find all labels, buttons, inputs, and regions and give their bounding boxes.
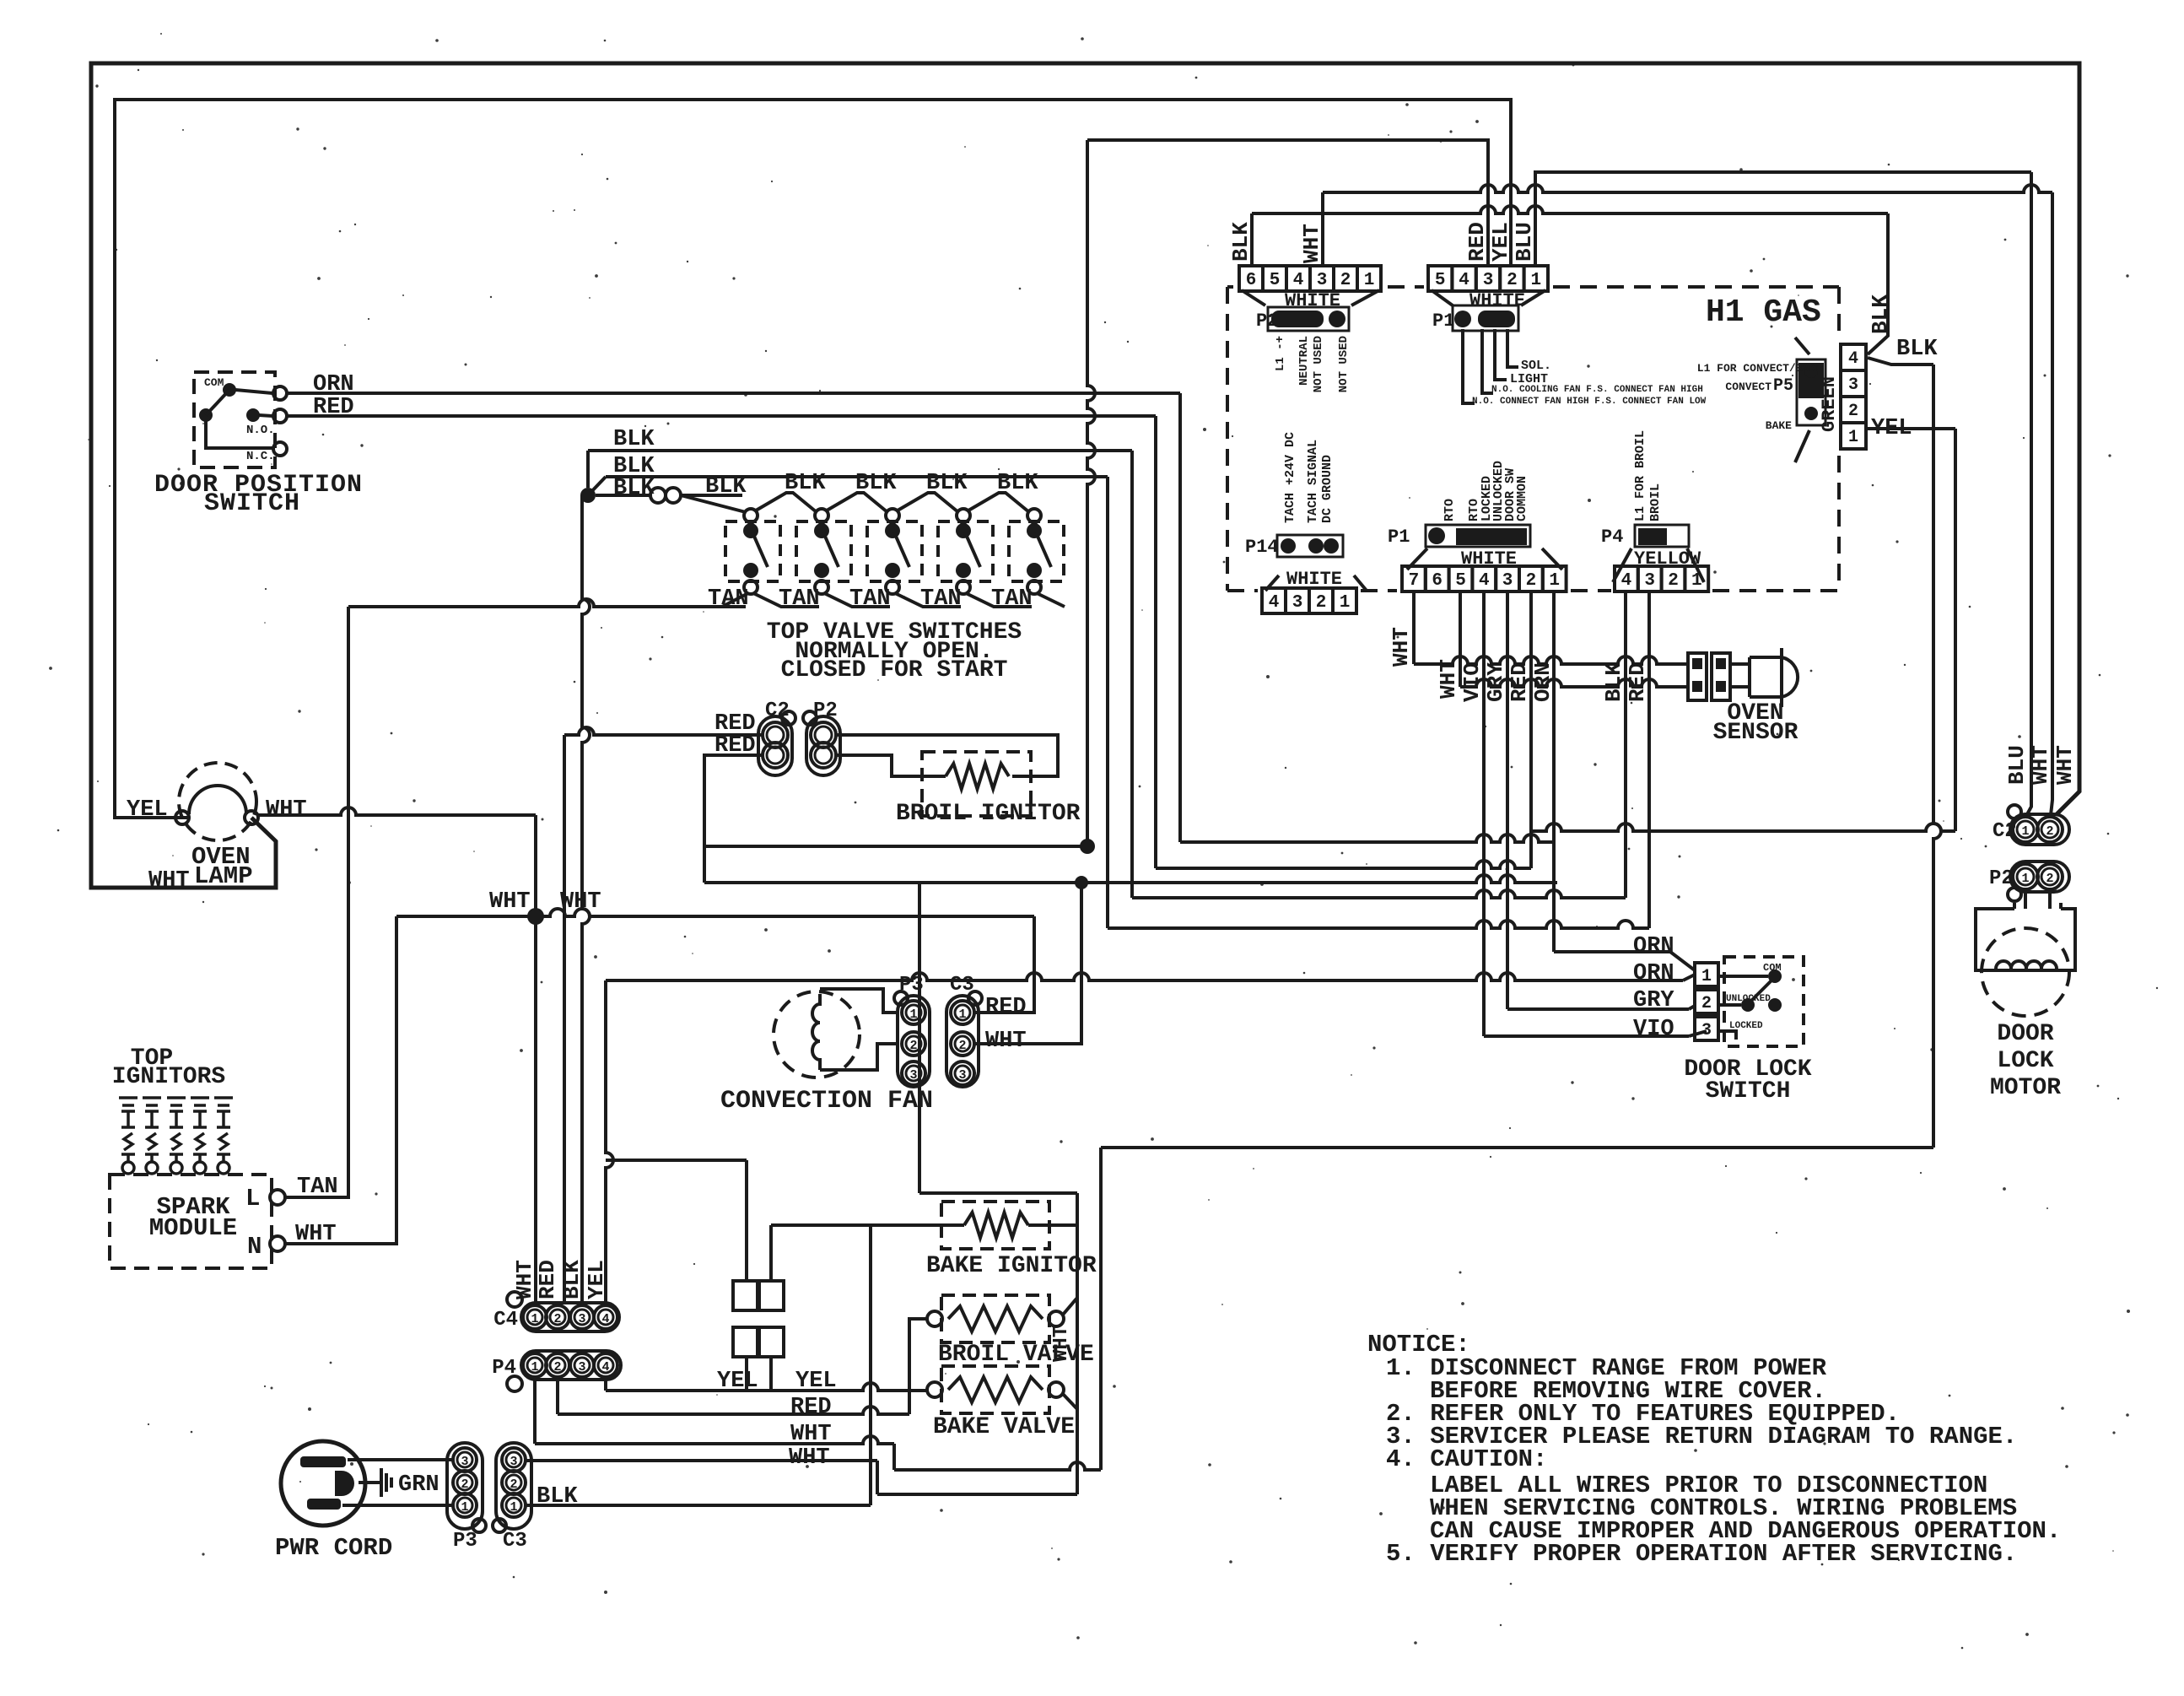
svg-text:4: 4 — [1848, 349, 1858, 369]
terminal block stubs — [745, 1160, 748, 1281]
svg-text:3: 3 — [958, 1068, 966, 1083]
svg-text:1: 1 — [531, 1312, 538, 1326]
door lock motor winding — [1996, 961, 2057, 969]
P4 funnel dashes — [1613, 548, 1631, 582]
svg-text:MOTOR: MOTOR — [1990, 1075, 2061, 1101]
svg-text:N.C.: N.C. — [246, 450, 275, 463]
wire YEL inner border run — [115, 100, 1511, 818]
node BLK junction top valve switches — [580, 488, 596, 503]
wire RED fan feed — [974, 916, 1034, 1013]
svg-text:1: 1 — [909, 1007, 917, 1022]
top ignitors symbols — [119, 1098, 138, 1174]
svg-text:SENSOR: SENSOR — [1713, 720, 1798, 746]
wire P2 bottom to resistor — [836, 755, 946, 776]
svg-text:BLK: BLK — [1601, 662, 1626, 702]
door position switch box — [194, 372, 275, 467]
svg-text:YEL: YEL — [1488, 222, 1513, 262]
svg-text:1: 1 — [461, 1500, 468, 1515]
svg-text:4: 4 — [601, 1312, 609, 1326]
svg-text:2: 2 — [510, 1477, 517, 1492]
svg-text:2: 2 — [1316, 593, 1327, 613]
svg-text:IGNITORS: IGNITORS — [112, 1064, 225, 1090]
svg-text:RED: RED — [535, 1260, 560, 1299]
svg-text:1: 1 — [1549, 571, 1560, 591]
P15 funnel dashes — [1432, 290, 1453, 305]
oven sensor bulb — [1750, 657, 1782, 697]
connector strip P5 vertical — [1841, 344, 1866, 370]
wire RED bus to P1 pin2 — [1156, 861, 1531, 868]
svg-text:1: 1 — [2021, 872, 2029, 886]
svg-text:CLOSED FOR START: CLOSED FOR START — [781, 657, 1008, 683]
door lock motor body — [2025, 892, 2050, 909]
svg-text:1: 1 — [1691, 571, 1702, 591]
svg-text:3: 3 — [578, 1312, 585, 1326]
wire plug to P3 pin3 — [348, 1458, 452, 1461]
svg-text:2: 2 — [2046, 872, 2053, 886]
svg-text:TACH +24V DC: TACH +24V DC — [1283, 432, 1297, 523]
top valve switch 5 — [1009, 521, 1064, 581]
svg-text:VIO: VIO — [1633, 1017, 1674, 1042]
svg-text:WHT: WHT — [1389, 627, 1414, 667]
svg-text:ORN: ORN — [1633, 961, 1674, 986]
connector strip P4 4-pin — [1615, 566, 1638, 591]
svg-text:WHITE: WHITE — [1469, 290, 1525, 311]
wire WHT 6-pin to C2 — [1321, 192, 1324, 266]
svg-text:BAKE VALVE: BAKE VALVE — [933, 1414, 1075, 1440]
svg-text:WHT: WHT — [2052, 745, 2078, 785]
svg-text:RED: RED — [1464, 222, 1490, 262]
wire BLK bus1 to P4 board — [1132, 890, 1626, 898]
svg-text:DC GROUND: DC GROUND — [1320, 455, 1335, 523]
wire WHT2 from C3 pin3 — [526, 1459, 877, 1462]
svg-text:TACH SIGNAL: TACH SIGNAL — [1306, 440, 1320, 523]
svg-text:2: 2 — [1701, 994, 1712, 1013]
svg-text:L1 FOR CONVECT/BAKE: L1 FOR CONVECT/BAKE — [1697, 362, 1822, 375]
svg-text:2: 2 — [1526, 571, 1537, 591]
svg-text:BROIL IGNITOR: BROIL IGNITOR — [896, 801, 1081, 827]
wire bake ignitor right return — [1028, 1223, 1077, 1227]
wire ORN bus to door lock switch — [1180, 834, 1554, 842]
svg-text:4: 4 — [1459, 271, 1469, 290]
wire RED C4 feed — [564, 727, 763, 735]
broil ignitor resistor — [922, 752, 1031, 816]
svg-text:WHT: WHT — [2028, 745, 2053, 785]
svg-text:C4: C4 — [493, 1309, 518, 1331]
svg-text:N: N — [247, 1233, 262, 1261]
svg-text:BAKE: BAKE — [1766, 419, 1792, 432]
svg-text:BLK: BLK — [613, 427, 655, 452]
wire plug to P3 pin1 — [342, 1504, 452, 1507]
svg-text:TAN: TAN — [779, 586, 820, 612]
wire loop top — [703, 845, 1087, 848]
svg-text:TAN: TAN — [991, 586, 1033, 612]
wire YEL to C4 pin4 — [606, 980, 613, 1303]
svg-text:2: 2 — [909, 1039, 917, 1053]
node junction loop top — [1080, 839, 1095, 854]
wire RED pin2 — [1529, 591, 1533, 868]
svg-text:COMMON: COMMON — [1515, 476, 1529, 521]
svg-text:GREEN: GREEN — [1819, 376, 1840, 432]
P5 funnel dashes — [1795, 338, 1809, 354]
wire WHT to C4 pin1 — [534, 916, 537, 1303]
wire rail 1771 — [877, 1493, 1077, 1496]
svg-text:TAN: TAN — [920, 586, 962, 612]
svg-text:WHT: WHT — [489, 889, 531, 915]
svg-text:1: 1 — [1848, 428, 1858, 447]
svg-text:L: L — [245, 1185, 260, 1213]
svg-text:6: 6 — [1246, 271, 1257, 290]
H1 GAS board dashed outline — [1227, 287, 1839, 591]
svg-text:PWR CORD: PWR CORD — [275, 1534, 392, 1562]
svg-text:RED: RED — [1625, 662, 1650, 702]
svg-text:WHT: WHT — [1299, 224, 1324, 263]
svg-text:NOT USED: NOT USED — [1337, 336, 1351, 392]
wire RED P4 pin2 down — [556, 1380, 559, 1414]
svg-text:VIO: VIO — [1459, 662, 1485, 702]
door position switch terminals — [273, 386, 287, 400]
svg-text:N.O. CONNECT FAN HIGH F.S. CON: N.O. CONNECT FAN HIGH F.S. CONNECT FAN L… — [1472, 397, 1707, 407]
svg-text:YEL: YEL — [127, 797, 168, 823]
wire loop bottom long — [704, 875, 1557, 883]
svg-text:GRY: GRY — [1633, 988, 1674, 1013]
svg-text:3: 3 — [1317, 271, 1328, 290]
wire WHT pin7 to sensor — [1412, 591, 1416, 664]
svg-text:2: 2 — [958, 1039, 966, 1053]
svg-text:6: 6 — [1432, 571, 1443, 591]
svg-text:DOOR: DOOR — [1997, 1021, 2053, 1047]
svg-text:MODULE: MODULE — [149, 1214, 237, 1242]
wire WHT spark module — [285, 916, 396, 1244]
wire link to terminal blocks — [606, 1159, 747, 1162]
oven lamp filament arc — [189, 786, 246, 814]
svg-text:2: 2 — [1848, 402, 1858, 421]
svg-text:BAKE IGNITOR: BAKE IGNITOR — [926, 1253, 1097, 1279]
svg-text:3: 3 — [578, 1360, 585, 1375]
P14 funnel dashes — [1265, 575, 1279, 591]
svg-text:LOCK: LOCK — [1997, 1048, 2053, 1074]
wire ORN second to switch — [606, 973, 1683, 980]
P15 internal wires — [1463, 329, 1475, 403]
power cord plug — [281, 1441, 365, 1526]
P1 funnel dashes — [1407, 548, 1427, 570]
svg-text:BLU: BLU — [1512, 222, 1537, 262]
svg-text:BLK: BLK — [1896, 337, 1938, 362]
svg-text:WHT: WHT — [148, 868, 190, 894]
wire YEL cross to door lock motor — [1531, 824, 1955, 831]
svg-text:2: 2 — [553, 1312, 561, 1326]
wire BLK P4 pin4 down — [1624, 591, 1627, 898]
wire broil valve right diagonal — [1063, 1298, 1077, 1315]
convection fan dashed circle — [774, 991, 860, 1078]
wire rail 1742 — [894, 1462, 1101, 1470]
svg-text:ORN: ORN — [1530, 662, 1556, 702]
diagonal BLK links between switches — [756, 493, 817, 512]
svg-text:3: 3 — [1644, 571, 1655, 591]
door position switch contacts — [223, 383, 236, 397]
svg-text:N.O.: N.O. — [246, 424, 275, 437]
svg-text:5: 5 — [1270, 271, 1281, 290]
svg-text:WHT: WHT — [985, 1029, 1027, 1054]
svg-text:2: 2 — [1507, 271, 1518, 290]
wire BLK to C4 pin3 — [582, 495, 590, 1303]
svg-text:3: 3 — [510, 1455, 517, 1469]
door lock switch dashed box — [1724, 957, 1804, 1046]
top valve switch 1 — [725, 521, 780, 581]
oven lamp terminals — [175, 811, 189, 824]
svg-text:CONVECT: CONVECT — [1725, 381, 1771, 393]
svg-text:2: 2 — [461, 1477, 468, 1492]
spark module box — [110, 1175, 272, 1268]
svg-text:BLK: BLK — [1868, 294, 1893, 334]
svg-text:TAN: TAN — [708, 586, 749, 612]
svg-text:COM: COM — [204, 376, 224, 389]
top valve switch 2 — [796, 521, 851, 581]
svg-text:SWITCH: SWITCH — [1706, 1078, 1791, 1105]
svg-text:1: 1 — [1701, 967, 1712, 986]
wire P2 top to loop right — [836, 735, 1058, 776]
svg-text:4: 4 — [1269, 593, 1280, 613]
convection fan winding — [812, 994, 820, 1070]
terminal block squares bottom — [733, 1327, 758, 1357]
svg-text:NOT USED: NOT USED — [1312, 336, 1325, 392]
svg-text:UNLOCKED: UNLOCKED — [1726, 994, 1771, 1004]
diagonal BLK feed first switch — [681, 495, 746, 512]
ground symbol — [359, 1481, 381, 1484]
wire RED lower loop — [704, 755, 763, 883]
svg-text:GRN: GRN — [398, 1472, 439, 1498]
wire BLK from C3 pin1 — [526, 1504, 871, 1507]
door lock switch pin boxes — [1695, 963, 1718, 986]
wire YEL P4 pin4 down — [604, 1380, 607, 1391]
wire TAN bus — [348, 599, 746, 607]
oven sensor wires — [1730, 662, 1750, 666]
oven lamp dashed circle — [179, 763, 256, 840]
connector strip P1 7-pin — [1402, 566, 1426, 591]
svg-text:L1 FOR BROIL: L1 FOR BROIL — [1633, 430, 1647, 521]
svg-text:3: 3 — [1292, 593, 1303, 613]
svg-text:4. CAUTION:: 4. CAUTION: — [1386, 1445, 1547, 1473]
oven sensor connector 1 — [1688, 653, 1707, 700]
svg-text:3: 3 — [1848, 375, 1858, 395]
svg-text:3: 3 — [1701, 1021, 1712, 1040]
svg-text:NEUTRAL: NEUTRAL — [1297, 336, 1311, 386]
svg-text:4: 4 — [601, 1360, 609, 1375]
svg-text:3: 3 — [461, 1455, 468, 1469]
wire ORN pin1 — [1552, 591, 1556, 952]
svg-text:RED: RED — [790, 1395, 832, 1420]
svg-text:BLK: BLK — [613, 476, 655, 501]
svg-text:5: 5 — [1435, 271, 1446, 290]
svg-text:ORN: ORN — [1633, 934, 1674, 959]
svg-text:WHITE: WHITE — [1285, 290, 1340, 311]
wire WHT pin5 to sensor — [1459, 591, 1462, 687]
svg-text:H1 GAS: H1 GAS — [1706, 294, 1821, 331]
svg-text:1: 1 — [1364, 271, 1375, 290]
wire BLU 5-pin — [1535, 172, 2031, 266]
svg-text:1: 1 — [1340, 593, 1351, 613]
node loop bottom fan tap — [1075, 876, 1088, 889]
svg-text:SOL.: SOL. — [1521, 359, 1551, 373]
wire bake valve right diagonal — [1063, 1394, 1077, 1409]
svg-text:1: 1 — [2021, 824, 2029, 839]
wire ORN vertical drop — [1178, 393, 1182, 842]
wire RED board bus vertical — [1087, 140, 1488, 266]
wire WHT neutral bus page border — [91, 63, 2079, 888]
svg-text:2: 2 — [2046, 824, 2053, 839]
wire BLK 6-pin to board right — [1250, 213, 1254, 266]
svg-text:GRY: GRY — [1483, 662, 1508, 702]
svg-text:WHT: WHT — [1050, 1326, 1073, 1362]
svg-text:SWITCH: SWITCH — [204, 489, 300, 518]
svg-text:L1 -+: L1 -+ — [1274, 336, 1287, 371]
wire WHT oven lamp to junction — [258, 807, 536, 815]
svg-text:BLU: BLU — [2004, 745, 2030, 785]
svg-text:WHT: WHT — [266, 797, 307, 823]
wire WHT P4 pin1 down — [533, 1380, 537, 1444]
svg-text:7: 7 — [1409, 571, 1420, 591]
svg-text:BLK: BLK — [705, 474, 747, 500]
svg-text:3: 3 — [1502, 571, 1513, 591]
svg-text:RED: RED — [985, 995, 1027, 1020]
svg-text:LAMP: LAMP — [194, 862, 253, 890]
broil valve resistor — [941, 1295, 1049, 1342]
wire GRY pin3 — [1506, 591, 1509, 1009]
connector strip P14 4-pin — [1262, 588, 1286, 613]
svg-text:1: 1 — [1530, 271, 1541, 290]
P2 funnel dashes — [1242, 290, 1265, 305]
connector strip 6-pin — [1239, 266, 1263, 291]
svg-text:TAN: TAN — [849, 586, 891, 612]
svg-text:5: 5 — [1455, 571, 1466, 591]
wire BLK bus2 to P4 board — [1108, 921, 1649, 928]
svg-text:3: 3 — [1483, 271, 1494, 290]
oven sensor connector 2 — [1712, 653, 1730, 700]
svg-text:1: 1 — [958, 1007, 966, 1022]
svg-text:P3: P3 — [453, 1530, 477, 1553]
svg-text:BROIL: BROIL — [1648, 483, 1663, 521]
svg-text:2: 2 — [1340, 271, 1351, 290]
wire TAN spark module — [285, 607, 348, 1197]
svg-text:1: 1 — [510, 1500, 517, 1515]
svg-text:P5: P5 — [1773, 376, 1793, 396]
bake valve resistor — [941, 1366, 1049, 1413]
svg-text:3: 3 — [909, 1068, 917, 1083]
svg-text:4: 4 — [1621, 571, 1632, 591]
svg-text:P14: P14 — [1245, 537, 1279, 558]
top valve switch 4 — [938, 521, 993, 581]
svg-text:2: 2 — [553, 1360, 561, 1375]
connector strip 5-pin — [1428, 266, 1452, 291]
wire RED P4 pin3 down — [1647, 591, 1651, 928]
svg-text:RED: RED — [1507, 662, 1532, 702]
svg-text:C3: C3 — [503, 1530, 527, 1553]
svg-text:WHT: WHT — [1436, 659, 1461, 699]
svg-text:4: 4 — [1293, 271, 1304, 290]
svg-text:5. VERIFY PROPER OPERATION AFT: 5. VERIFY PROPER OPERATION AFTER SERVICI… — [1386, 1540, 2017, 1568]
svg-text:P4: P4 — [1601, 527, 1623, 548]
node WHT junction — [527, 908, 544, 925]
svg-text:P1: P1 — [1388, 527, 1410, 548]
wire WHT fan feed — [974, 883, 1081, 1044]
terminal block squares top — [733, 1281, 758, 1310]
wire bake ignitor feed vertical — [918, 883, 921, 1193]
convection fan motor frame — [820, 989, 896, 1013]
svg-text:RTO: RTO — [1443, 499, 1457, 521]
door lock motor dashed circle — [1982, 928, 2069, 1016]
wire RED vertical drop — [1154, 416, 1157, 868]
svg-text:N.O. COOLING FAN F.S. CONNECT: N.O. COOLING FAN F.S. CONNECT FAN HIGH — [1491, 385, 1703, 395]
svg-text:BLK: BLK — [1228, 222, 1254, 262]
svg-text:CONVECTION FAN: CONVECTION FAN — [720, 1087, 933, 1115]
wire bake ignitor left — [771, 1223, 964, 1227]
wire RED 5-pin stub — [1486, 146, 1490, 266]
bake ignitor resistor — [941, 1202, 1049, 1249]
svg-text:4: 4 — [1479, 571, 1490, 591]
svg-text:2: 2 — [1668, 571, 1679, 591]
top valve switch 3 — [867, 521, 922, 581]
svg-text:1: 1 — [531, 1360, 538, 1375]
svg-text:WHT: WHT — [789, 1445, 830, 1471]
wire VIO pin4 — [1482, 591, 1486, 1036]
